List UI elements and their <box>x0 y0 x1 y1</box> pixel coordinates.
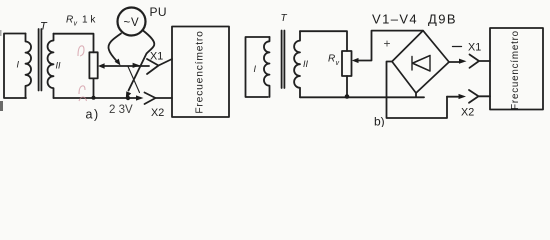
svg-text:v: v <box>336 60 340 67</box>
svg-text:X1: X1 <box>468 42 481 54</box>
svg-text:b): b) <box>374 115 385 128</box>
svg-text:R: R <box>328 54 335 65</box>
svg-text:2 3V: 2 3V <box>109 104 133 116</box>
svg-text:R: R <box>66 15 73 26</box>
svg-text:Frecuencímetro: Frecuencímetro <box>195 30 206 113</box>
svg-text:Frecuencímetro: Frecuencímetro <box>510 30 521 110</box>
svg-text:+: + <box>384 37 391 51</box>
svg-text:1 k: 1 k <box>82 15 96 26</box>
svg-text:~V: ~V <box>124 17 140 29</box>
svg-text:I: I <box>254 64 257 74</box>
svg-text:T: T <box>281 13 288 24</box>
svg-text:a): a) <box>86 108 100 122</box>
svg-text:I: I <box>17 60 20 70</box>
svg-text:X1: X1 <box>150 51 163 63</box>
svg-text:X2: X2 <box>461 107 474 119</box>
svg-text:PU: PU <box>150 5 167 19</box>
svg-text:II: II <box>56 61 62 71</box>
svg-text:II: II <box>303 59 309 69</box>
svg-text:T: T <box>40 21 48 33</box>
svg-text:V1–V4 Д9В: V1–V4 Д9В <box>372 12 457 27</box>
svg-text:v: v <box>74 21 78 28</box>
svg-text:X2: X2 <box>151 107 164 119</box>
